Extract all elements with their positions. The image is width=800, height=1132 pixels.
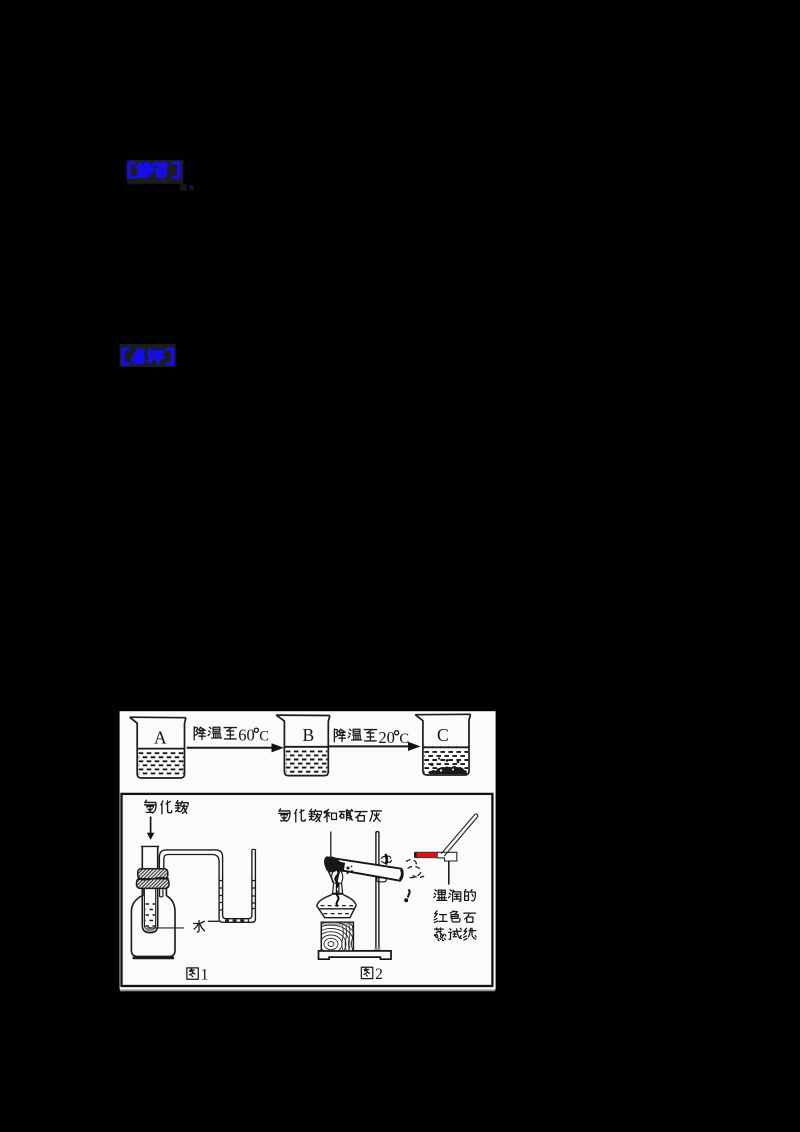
gas wisps at tube mouth (406, 860, 421, 878)
highlight halo behind label 2 (120, 344, 176, 367)
beaker B liquid surface (284, 746, 328, 748)
faint gray mark after label 1 (180, 184, 194, 191)
beaker B rim (276, 714, 330, 716)
text 湿润的 / 红色石 / 蕊试纸 (434, 889, 476, 940)
beaker B liquid dashes (286, 750, 327, 752)
moist red litmus paper (437, 852, 457, 861)
beaker A rim (130, 716, 186, 719)
precipitate in beaker C (429, 766, 467, 774)
tilted test tube (325, 857, 403, 880)
water dashes inside test tube (146, 903, 156, 905)
delivery tube bend and U-tube (159, 849, 252, 918)
beaker A outline (130, 717, 186, 778)
leader to litmus text (448, 861, 450, 885)
label 氯化铵 (fig1) (144, 800, 188, 813)
clamp sleeve on rod (377, 877, 387, 881)
wick and flame (332, 870, 343, 883)
frame of lower figure box (122, 794, 493, 986)
svg-text:20: 20 (378, 728, 395, 747)
leader line from label to tube (330, 832, 332, 859)
glass rod (441, 814, 477, 856)
beaker C outline (415, 714, 470, 775)
stand base (319, 951, 392, 959)
label 降温至20°C (334, 729, 376, 742)
blue section label 【点评】 (123, 349, 173, 364)
beaker B outline (276, 715, 330, 776)
arrow 降温至20°C (329, 745, 410, 747)
clamp bolt on rod (381, 856, 391, 863)
rubber stopper (wrapped) (138, 869, 168, 879)
graduation ticks on U-tube arms (219, 880, 223, 882)
label 图2 (361, 967, 372, 978)
test tube in bottle (142, 847, 157, 933)
beaker C liquid dashes (424, 751, 468, 753)
bottle (131, 889, 175, 957)
white figure background (120, 711, 496, 989)
blue section label 【解答】 (129, 163, 179, 177)
svg-text:C: C (437, 725, 449, 745)
label 图1 (187, 968, 198, 979)
water dashes in U-tube bottom (225, 920, 249, 922)
stand rod (376, 832, 379, 949)
beaker C rim (415, 713, 470, 715)
arrow 降温至60°C (187, 747, 273, 749)
beaker A liquid surface (137, 748, 184, 750)
beaker A liquid dashes (139, 752, 184, 754)
solid reagent inside tube (328, 860, 345, 872)
label 降温至60°C (194, 727, 236, 740)
leader lines and label 水 (148, 927, 184, 929)
svg-text:C: C (259, 729, 269, 745)
alcohol lamp (333, 883, 343, 893)
gray bottom edge of figure (120, 990, 495, 992)
svg-text:1: 1 (201, 967, 209, 984)
small drop mark (408, 890, 410, 898)
svg-text:C: C (399, 731, 409, 747)
highlight halo behind label 1 (127, 160, 183, 184)
svg-text:60: 60 (238, 726, 255, 745)
clamp jaws holding tube (324, 857, 342, 873)
beaker C liquid surface (423, 746, 469, 748)
wood block with grain (321, 922, 353, 951)
down arrow to test tube (150, 817, 152, 835)
svg-text:2: 2 (375, 966, 383, 983)
svg-text:B: B (303, 725, 315, 745)
svg-text:A: A (154, 728, 167, 748)
label 氯化铵和碱石灰 (fig2) (279, 809, 382, 822)
short tube stub below stopper (160, 889, 163, 897)
